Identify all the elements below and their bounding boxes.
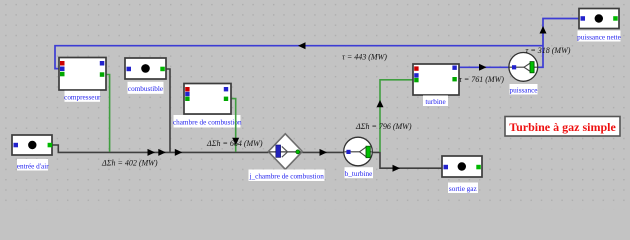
conversion triangle xyxy=(524,63,530,72)
port green right xyxy=(160,67,165,72)
svg-text:Turbine à gaz simple: Turbine à gaz simple xyxy=(509,120,616,134)
svg-text:τ = 443 (MW): τ = 443 (MW) xyxy=(342,53,387,62)
label sortie gaz xyxy=(448,183,478,194)
expansion triangle xyxy=(360,147,367,157)
port blue inlet xyxy=(512,65,516,69)
svg-text:τ = 761 (MW): τ = 761 (MW) xyxy=(459,75,504,84)
arrow left on long blue wire xyxy=(298,42,306,49)
internal line xyxy=(345,151,372,153)
port green right xyxy=(452,77,456,81)
wire: green compresseur outlet down to main line xyxy=(103,75,413,153)
svg-text:ΔΣh = 796 (MW): ΔΣh = 796 (MW) xyxy=(355,122,412,131)
port blue left xyxy=(14,143,19,148)
wire: b_turbine to sortie gaz xyxy=(372,152,443,168)
svg-text:entrée d'air: entrée d'air xyxy=(17,162,49,170)
wire: mixer to b_turbine xyxy=(302,151,344,153)
port blue left xyxy=(414,73,418,77)
port blue left xyxy=(185,92,189,96)
arrow on main line 3 xyxy=(175,149,183,156)
port red left xyxy=(414,66,418,70)
turbine block xyxy=(413,64,459,95)
gas exit block (sortie gaz) xyxy=(442,156,482,177)
sink dot xyxy=(595,14,603,22)
svg-text:τ = 318 (MW): τ = 318 (MW) xyxy=(526,46,571,55)
port green left xyxy=(185,97,189,101)
label combustible xyxy=(128,82,164,94)
port green right xyxy=(613,16,618,21)
svg-text:puissance nette: puissance nette xyxy=(577,33,621,41)
arrow up on puissance nette wire xyxy=(540,26,547,34)
sink dot xyxy=(458,162,466,170)
port green right (process link) xyxy=(100,72,105,77)
label b_turbine xyxy=(345,167,374,178)
wire: blue puissance up to puissance nette xyxy=(537,19,580,68)
fuel source block (combustible) xyxy=(125,58,166,79)
compressor block (compresseur) xyxy=(59,58,106,91)
port blue left (process in) xyxy=(444,165,449,170)
port blue right xyxy=(100,61,105,66)
wire: blue long energy line puissance junction to compresseur xyxy=(55,19,580,69)
arrow down on green chambre wire xyxy=(232,138,239,145)
label j_chambre de combustion xyxy=(249,170,325,182)
port blue right (energy out) xyxy=(452,66,456,70)
arrow mixer to b_turbine xyxy=(320,149,328,156)
wire: green chambre wire over label xyxy=(235,115,237,128)
process circle b_turbine xyxy=(344,137,373,166)
air inlet block (entree d'air) xyxy=(12,135,52,155)
svg-text:turbine: turbine xyxy=(425,98,445,106)
svg-text:puissance: puissance xyxy=(510,86,538,94)
port green right (process link) xyxy=(224,97,228,101)
label compresseur xyxy=(64,91,101,102)
blue inlet bar xyxy=(276,145,281,157)
internal line xyxy=(269,151,301,153)
port green left (process link) xyxy=(414,78,418,82)
svg-text:ΔΣh = 402 (MW): ΔΣh = 402 (MW) xyxy=(101,159,158,168)
chevron xyxy=(282,146,288,157)
green outlet bar xyxy=(530,62,534,73)
combustion chamber block (chambre de combustion) xyxy=(184,84,231,115)
port red left xyxy=(60,61,65,66)
label puissance xyxy=(510,84,538,95)
mixer diamond (j_chambre de combustion) xyxy=(268,134,302,170)
wire: combustible down to main line xyxy=(164,69,170,152)
wire: main process line from entree d'air to mixer xyxy=(52,69,443,168)
arrow up on green turbine wire xyxy=(377,100,384,107)
svg-text:ΔΣh = 664 (MW): ΔΣh = 664 (MW) xyxy=(206,139,263,148)
wire: green chambre de combustion down to main line xyxy=(230,99,236,152)
arrow right on turbine-puissance wire xyxy=(479,64,487,71)
port red left xyxy=(185,87,189,91)
wire: blue turbine to puissance xyxy=(456,66,510,68)
label entree d'air xyxy=(17,159,49,171)
port blue left (energy in) xyxy=(581,16,586,21)
port green right xyxy=(48,143,53,148)
svg-text:chambre de combustion: chambre de combustion xyxy=(173,118,242,126)
title box Turbine a gaz simple xyxy=(505,117,620,137)
svg-text:combustible: combustible xyxy=(128,85,163,93)
green outlet dot xyxy=(296,150,300,154)
svg-text:sortie gaz: sortie gaz xyxy=(449,185,477,193)
port green right xyxy=(476,165,481,170)
label puissance nette xyxy=(577,31,621,42)
arrow b_turbine to sortie gaz xyxy=(393,165,401,172)
source dot xyxy=(141,64,150,73)
label turbine xyxy=(423,96,448,107)
port blue right xyxy=(224,87,228,91)
green outlet bar xyxy=(366,146,370,158)
internal line xyxy=(510,66,538,68)
svg-text:j_chambre de combustion: j_chambre de combustion xyxy=(249,172,325,180)
port green left xyxy=(60,72,65,77)
label chambre de combustion xyxy=(173,115,242,128)
arrow on main line 2 xyxy=(158,149,166,156)
source dot xyxy=(28,141,36,149)
energy circle puissance xyxy=(509,53,538,82)
arrow on main line 1 xyxy=(148,149,156,156)
svg-text:compresseur: compresseur xyxy=(64,94,101,102)
wire: green turbine to b_turbine junction xyxy=(380,80,413,152)
svg-text:b_turbine: b_turbine xyxy=(345,170,373,178)
energy sink block (puissance nette) xyxy=(579,9,619,29)
port blue left xyxy=(127,67,132,72)
port blue inlet xyxy=(346,150,350,154)
port blue left (energy in) xyxy=(60,67,65,72)
